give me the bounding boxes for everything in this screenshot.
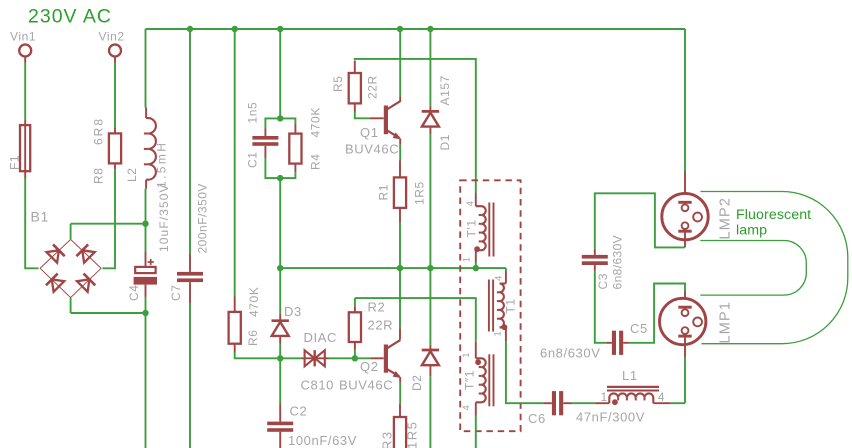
svg-text:L1: L1: [622, 368, 638, 383]
svg-text:C4: C4: [127, 284, 141, 301]
svg-text:Q2: Q2: [360, 359, 379, 374]
svg-text:Q1: Q1: [360, 125, 379, 140]
svg-text:C7: C7: [169, 284, 183, 301]
svg-text:100nF/63V: 100nF/63V: [288, 433, 357, 448]
svg-text:BUV46C: BUV46C: [345, 142, 399, 157]
lamp LMP2: [662, 29, 734, 247]
wire L2 bottom: [145, 189, 147, 224]
junction dot C1R4 bottom: [277, 175, 283, 181]
fluorescent tube outline: [700, 192, 848, 344]
capacitor C1: [246, 102, 281, 178]
junction dot bus-C7: [187, 26, 193, 32]
wire F1 to bridge left: [25, 178, 38, 268]
svg-text:22R: 22R: [366, 75, 380, 99]
svg-text:47nF/300V: 47nF/300V: [576, 410, 645, 425]
label 230V AC: [28, 6, 112, 28]
svg-text:C3: C3: [596, 273, 610, 290]
svg-text:R8: R8: [92, 167, 106, 184]
svg-text:C810: C810: [301, 378, 334, 393]
junction dot minus node: [142, 310, 148, 316]
resistor R8: [92, 117, 122, 184]
transformer box: [460, 180, 520, 431]
junction dot bus-Q1: [397, 26, 403, 32]
junction dot bus-D1: [427, 26, 433, 32]
wire middle bus: [280, 267, 506, 269]
svg-text:lamp: lamp: [736, 223, 767, 239]
svg-text:T'1: T'1: [465, 219, 479, 237]
svg-text:C5: C5: [630, 321, 648, 336]
svg-text:LMP2: LMP2: [718, 197, 734, 240]
svg-text:C6: C6: [528, 411, 546, 426]
inductor L2: [125, 108, 169, 189]
svg-text:4: 4: [461, 405, 472, 411]
resistor R4: [280, 107, 322, 178]
svg-text:R2: R2: [368, 300, 386, 315]
wire R5 to T'1 pin4: [355, 59, 476, 193]
svg-text:230V AC: 230V AC: [28, 6, 112, 28]
wire C4 to bottom edge: [145, 297, 147, 448]
svg-text:Vin1: Vin1: [10, 30, 36, 44]
svg-text:10uF/350V: 10uF/350V: [157, 183, 171, 252]
svg-text:L2: L2: [125, 167, 139, 182]
svg-text:R6: R6: [246, 329, 260, 346]
svg-text:R3: R3: [380, 430, 395, 448]
resistor R2: [349, 298, 393, 358]
wire bridge plus to DC node: [71, 223, 146, 225]
junction dot L2/C4 node: [142, 221, 148, 227]
junction dot C1R4 top: [277, 115, 283, 121]
svg-text:B1: B1: [31, 209, 49, 225]
svg-text:D3: D3: [284, 304, 302, 319]
wire C3 to C5: [595, 271, 606, 343]
capacitor C7: [169, 29, 210, 448]
resistor R3: [380, 383, 420, 448]
capacitor C5: [540, 321, 648, 361]
svg-text:A157: A157: [438, 75, 452, 105]
svg-text:6n8/630V: 6n8/630V: [611, 235, 625, 290]
bridge rectifier B1: [31, 209, 102, 314]
svg-text:200nF/350V: 200nF/350V: [196, 183, 210, 253]
capacitor C4: [127, 183, 171, 301]
wire top bus: [146, 28, 686, 30]
svg-text:1.5mH: 1.5mH: [155, 141, 169, 188]
lamp LMP1: [660, 291, 734, 358]
resistor R1: [377, 145, 427, 268]
svg-text:470K: 470K: [309, 107, 323, 137]
wire C5 to LMP1 top: [629, 284, 685, 343]
wire bus to C1R4: [279, 29, 281, 118]
resistor R6: [229, 29, 277, 358]
junction dot D3-DIAC node: [277, 355, 283, 361]
junction dot mid-T'1: [473, 265, 479, 271]
diode D1: [422, 29, 452, 268]
svg-text:C1: C1: [246, 151, 260, 168]
svg-text:R4: R4: [309, 153, 323, 170]
svg-text:R5: R5: [331, 75, 345, 92]
transformer winding T'1: [462, 193, 494, 268]
wire C1R4 to mid bus: [279, 178, 281, 268]
svg-text:BUV46C: BUV46C: [339, 378, 393, 393]
svg-text:1n5: 1n5: [246, 102, 260, 124]
wire R5 to Q1 base: [355, 112, 384, 118]
svg-text:6n8/630V: 6n8/630V: [540, 346, 600, 361]
transistor Q1: [345, 29, 401, 157]
svg-text:6R8: 6R8: [92, 117, 106, 145]
svg-text:470K: 470K: [247, 287, 261, 317]
wire L1 to LMP1: [684, 358, 686, 403]
svg-text:R1: R1: [377, 184, 391, 201]
svg-text:1: 1: [601, 390, 608, 404]
wire R8 to bridge right: [103, 163, 116, 268]
svg-text:4: 4: [465, 201, 476, 207]
junction dot DIAC-R2 node: [352, 355, 358, 361]
svg-text:T″1: T″1: [463, 370, 477, 390]
junction dot bus-C1R4: [277, 26, 283, 32]
svg-text:1R5: 1R5: [405, 421, 420, 448]
wire Vin1 to F1: [24, 63, 26, 121]
label Fluorescent lamp: [736, 207, 811, 239]
capacitor C6: [528, 391, 645, 426]
terminal Vin2: [99, 30, 125, 63]
inductor L1: [596, 368, 686, 405]
transistor Q2: [339, 268, 401, 392]
svg-text:4: 4: [494, 275, 505, 281]
resistor R5: [331, 61, 380, 113]
svg-text:D2: D2: [410, 374, 424, 391]
svg-text:DIAC: DIAC: [304, 330, 337, 345]
svg-text:C2: C2: [290, 404, 308, 419]
svg-text:Vin2: Vin2: [99, 30, 125, 44]
transformer winding T1: [489, 268, 518, 342]
diode D3: [272, 268, 302, 358]
capacitor C2: [267, 358, 357, 448]
diac: [280, 330, 370, 393]
transformer winding T"1: [461, 342, 494, 448]
wire L2 top: [145, 29, 147, 108]
junction dot mid-D2: [427, 265, 433, 271]
wire bridge minus: [71, 312, 146, 314]
wire Vin2 to R8: [114, 63, 116, 134]
diode D2: [410, 268, 439, 448]
svg-text:1: 1: [462, 256, 473, 262]
fuse F1: [8, 121, 31, 179]
svg-text:LMP1: LMP1: [718, 301, 734, 344]
svg-text:4: 4: [658, 390, 665, 404]
wire LMP2 bottom to C3: [595, 193, 685, 249]
svg-text:1: 1: [493, 331, 504, 337]
svg-text:Fluorescent: Fluorescent: [736, 207, 811, 223]
junction dot mid-D3: [277, 265, 283, 271]
svg-text:1: 1: [461, 352, 472, 358]
svg-text:D1: D1: [438, 134, 452, 151]
wire T1 to C6: [506, 342, 544, 404]
svg-text:F1: F1: [8, 155, 22, 170]
junction dot mid-Q: [397, 265, 403, 271]
svg-text:1R5: 1R5: [413, 181, 427, 205]
wire R2 to T"1 pin1: [355, 298, 476, 342]
terminal Vin1: [10, 30, 36, 63]
junction dot bus-R6: [232, 26, 238, 32]
svg-text:22R: 22R: [368, 318, 394, 333]
svg-text:T1: T1: [504, 298, 518, 313]
capacitor C3: [582, 235, 625, 290]
